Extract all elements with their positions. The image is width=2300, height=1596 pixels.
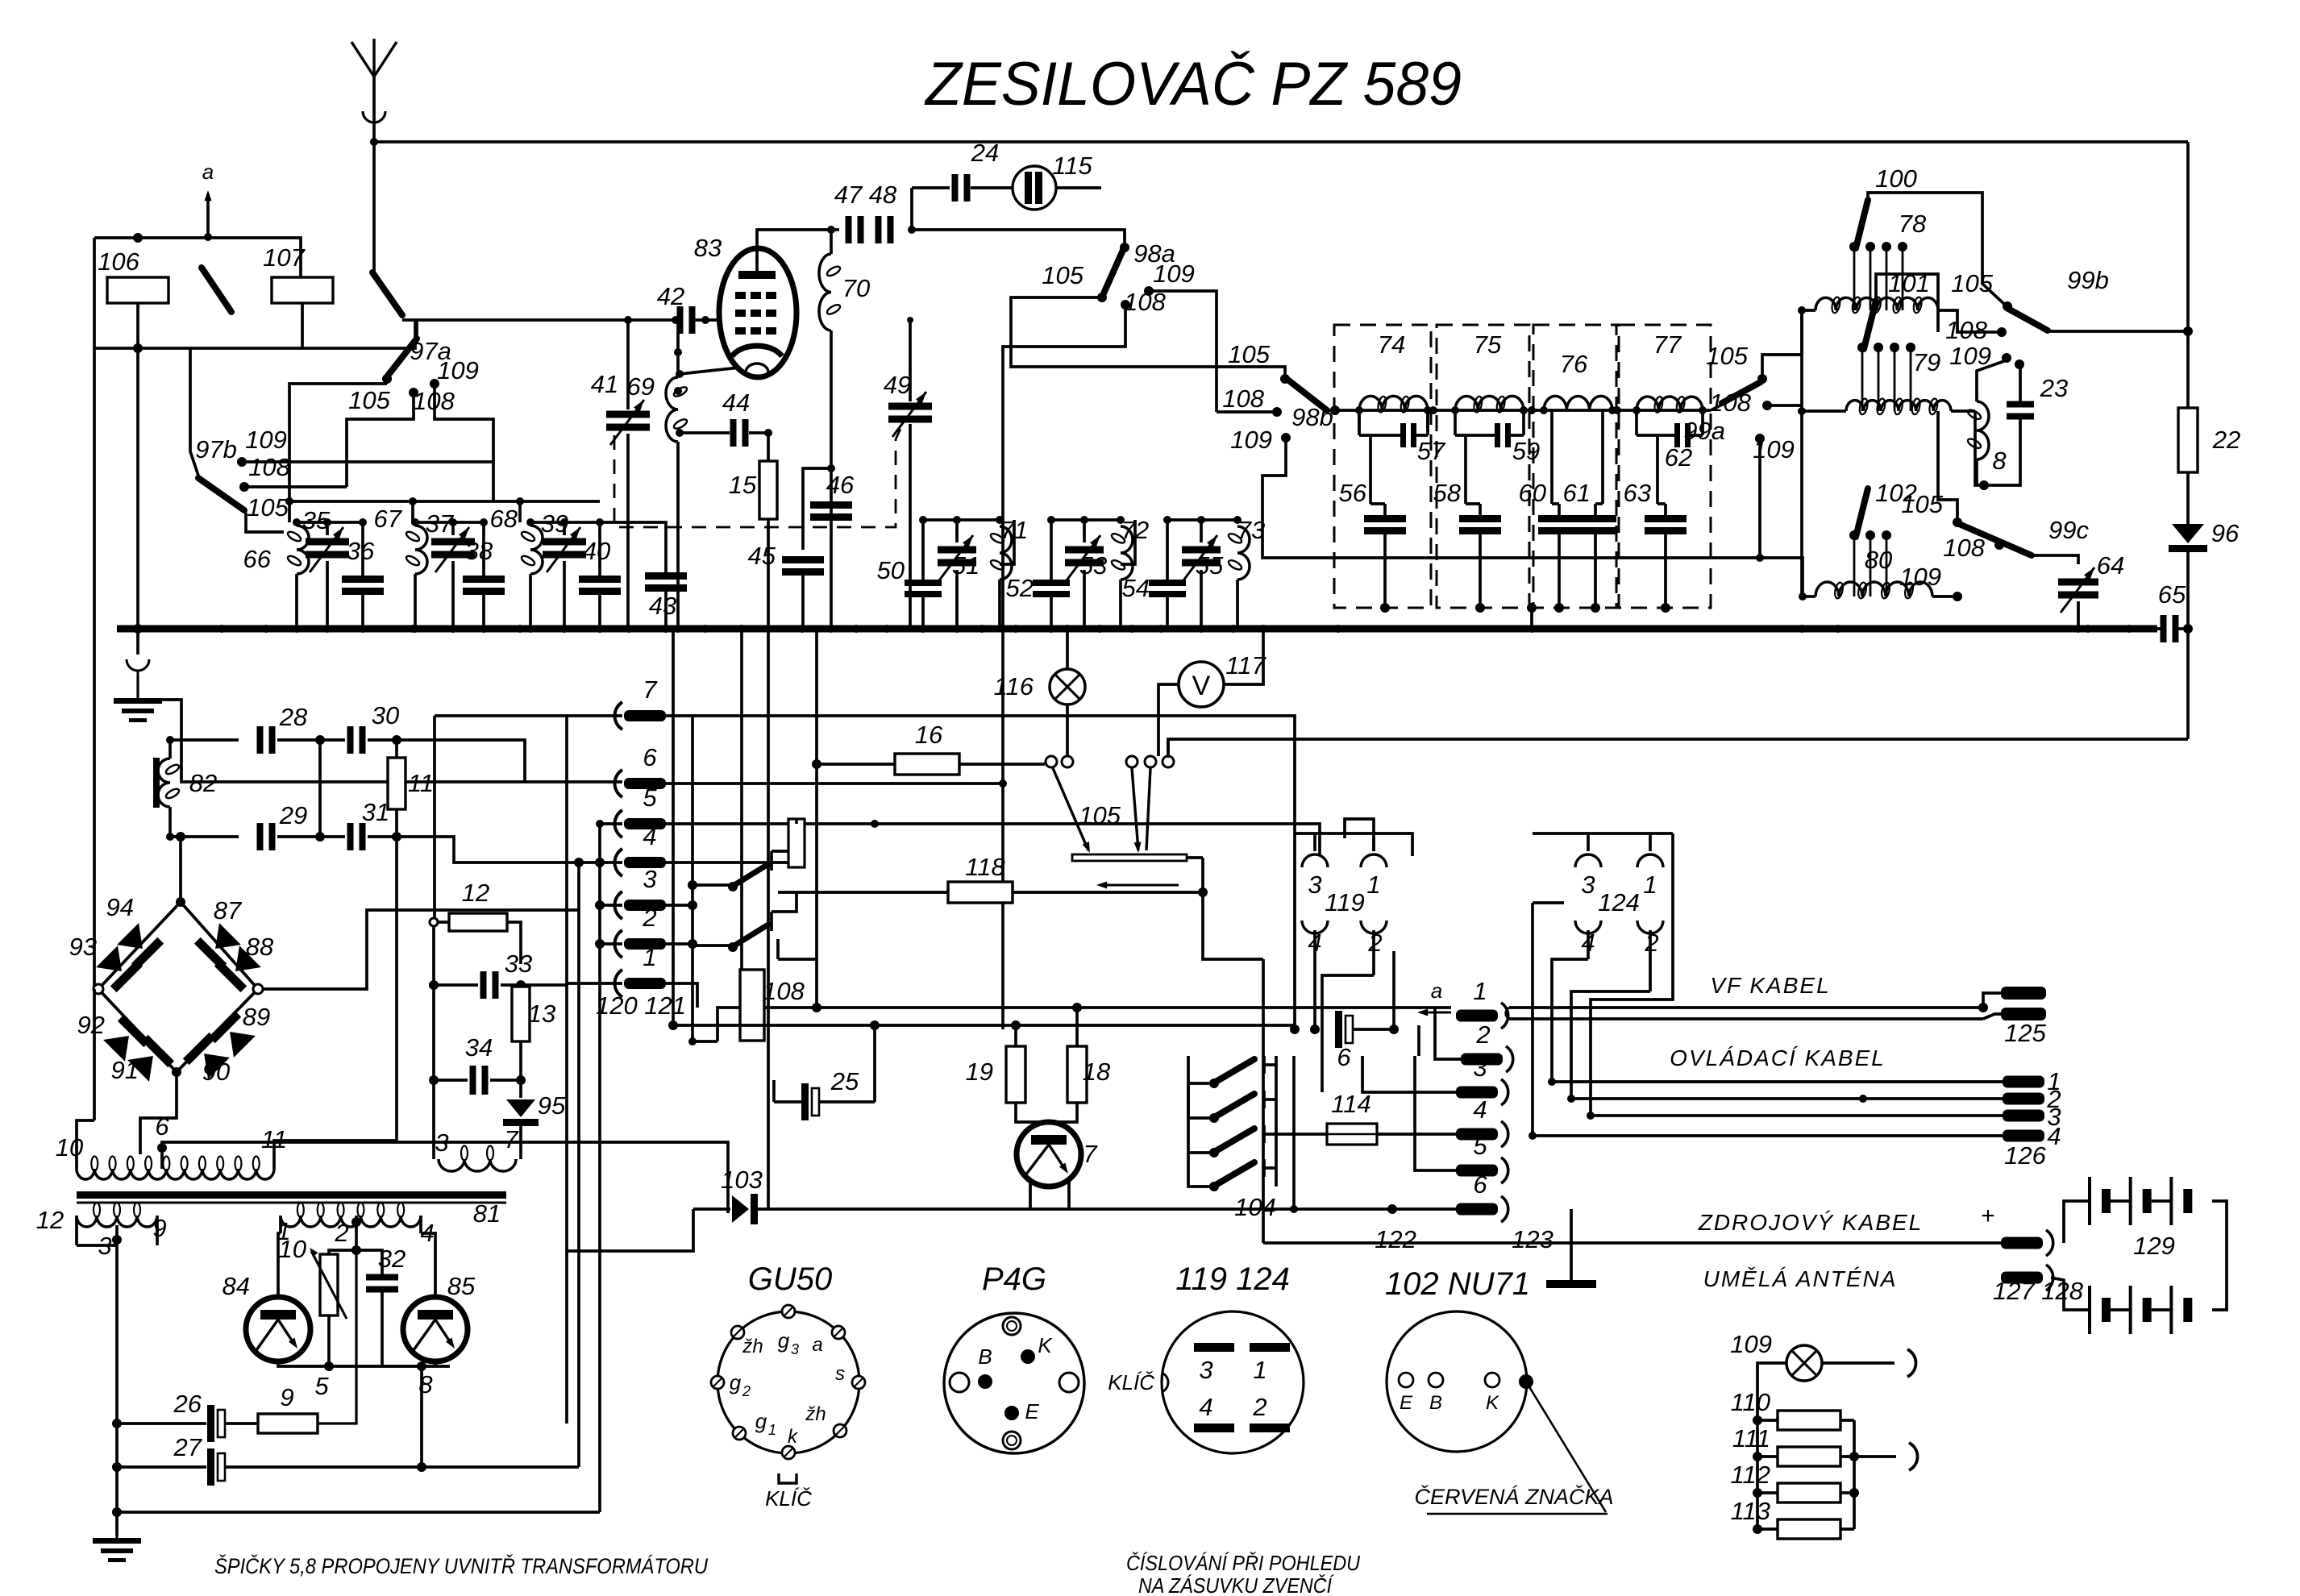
node 98a 105	[1097, 293, 1107, 302]
resistor 18	[1067, 1046, 1087, 1103]
wire 78 left	[1802, 310, 1815, 355]
svg-text:23: 23	[2040, 374, 2068, 402]
svg-text:26: 26	[173, 1390, 202, 1418]
wire vertical 835	[672, 629, 675, 1025]
svg-text:34: 34	[465, 1033, 493, 1062]
svg-text:12: 12	[462, 879, 489, 907]
wire cap6 right	[1353, 1028, 1394, 1031]
diode 90	[183, 1033, 232, 1082]
antenna	[372, 77, 376, 274]
node VF right	[1978, 1003, 1988, 1012]
svg-text:5: 5	[314, 1372, 329, 1400]
wire 1500 long	[758, 1207, 1456, 1211]
switch 99a blade	[1722, 382, 1761, 403]
svg-text:6: 6	[1473, 1170, 1487, 1199]
wire 26 right	[226, 1422, 258, 1425]
svg-text:61: 61	[1563, 479, 1591, 507]
svg-text:2: 2	[742, 1383, 751, 1399]
svg-text:99a: 99a	[1683, 417, 1725, 445]
wire 99c common up	[1938, 411, 1957, 522]
wire 171 to bus	[136, 348, 139, 629]
tuned circuit cap 54 cap 55 coil 73	[1167, 518, 1237, 522]
meter 7	[1016, 1103, 1043, 1122]
node rail 512	[409, 497, 417, 505]
svg-text:108: 108	[1709, 389, 1751, 417]
wire 115 out	[1056, 186, 1101, 189]
dashed 49 link	[896, 427, 901, 439]
inductor 75	[1455, 396, 1524, 410]
wire 49 top	[909, 320, 912, 401]
svg-text:77: 77	[1653, 330, 1682, 359]
wire 109 rail mid	[1149, 291, 1217, 412]
svg-text:35: 35	[302, 506, 331, 534]
wire lamp109 left	[1757, 1363, 1786, 1420]
tuned circuit coil 67 cap 37 cap 38	[415, 521, 484, 524]
connector pin 6	[615, 770, 622, 797]
wire 22 to 96	[2186, 472, 2190, 524]
resistor 15	[759, 461, 777, 519]
svg-text:ČÍSLOVÁNÍ PŘI POHLEDU: ČÍSLOVÁNÍ PŘI POHLEDU	[1126, 1551, 1360, 1575]
node 2 junction	[351, 1245, 361, 1255]
wire 285 to 98a	[912, 230, 1125, 246]
svg-text:98b: 98b	[1291, 403, 1333, 431]
wire 32 top	[356, 1250, 382, 1274]
wire cathode	[680, 368, 739, 374]
svg-text:ZDROJOVÝ KABEL: ZDROJOVÝ KABEL	[1698, 1210, 1924, 1235]
svg-text:UMĚLÁ ANTÉNA: UMĚLÁ ANTÉNA	[1703, 1266, 1898, 1291]
svg-text:118: 118	[965, 853, 1005, 881]
svg-text:a: a	[1431, 979, 1442, 1003]
wire cap25 branch	[873, 1025, 876, 1102]
wire 97a common	[415, 320, 418, 339]
resistor 118	[948, 882, 1013, 903]
node 47-48 right	[908, 226, 916, 234]
wire 117 right	[1224, 631, 1263, 684]
svg-text:63: 63	[1624, 479, 1651, 507]
node 41 top	[624, 316, 632, 324]
node pin5 1085	[871, 820, 879, 828]
wire battery loop	[2064, 1201, 2090, 1243]
wire vertical 718	[577, 862, 580, 1467]
svg-text:19: 19	[966, 1058, 993, 1086]
capacitor 43	[645, 572, 687, 580]
node filters bus	[1527, 603, 1537, 613]
wire left AC down	[93, 348, 96, 989]
svg-text:24: 24	[971, 139, 999, 167]
node 1260-1272	[1011, 1020, 1021, 1030]
capacitor 31	[347, 823, 354, 850]
wire 124 tails	[1552, 959, 1588, 1082]
svg-text:8: 8	[1992, 447, 2007, 475]
node bridge right	[253, 984, 263, 994]
wire 16 left	[817, 763, 895, 766]
svg-text:B: B	[978, 1345, 992, 1369]
capacitor 59	[1454, 410, 1457, 435]
diode 92	[101, 1015, 150, 1064]
switch relay arm 1	[734, 864, 768, 885]
plug lamp109	[1907, 1349, 1916, 1377]
wire sec left terms	[75, 1216, 78, 1245]
capacitor 45	[782, 556, 824, 563]
wire primary right	[274, 1141, 397, 1143]
svg-text:50: 50	[877, 556, 905, 584]
svg-text:105: 105	[1042, 261, 1083, 289]
node 80 left	[1799, 592, 1807, 601]
wire pin6 left	[138, 700, 622, 782]
variable capacitor 49	[888, 403, 932, 410]
node antenna-top	[370, 138, 378, 146]
svg-text:112: 112	[1731, 1461, 1770, 1489]
wire 97b 109	[242, 462, 493, 501]
wire 8 down	[420, 1366, 423, 1467]
svg-text:31: 31	[362, 798, 389, 826]
wire vertical 859	[691, 716, 694, 1041]
wire 9 right	[318, 1250, 356, 1424]
svg-text:79: 79	[1913, 348, 1940, 376]
svg-text:13: 13	[528, 1000, 555, 1028]
node 99a 105	[1757, 374, 1767, 384]
socket P4G holes	[950, 1373, 969, 1392]
wire 104 rail	[1264, 1063, 1276, 1066]
svg-text:9: 9	[280, 1383, 293, 1411]
svg-text:12: 12	[36, 1206, 64, 1234]
wire grid return	[676, 320, 680, 377]
wire 104 left feeds	[1188, 1083, 1214, 1118]
inductor 77	[1637, 397, 1703, 410]
wire 44 right	[749, 431, 768, 434]
node relay 1013	[812, 1003, 821, 1012]
wire 78 right	[1938, 310, 2002, 332]
plug 2	[1461, 1054, 1503, 1066]
capacitor 25	[801, 1083, 809, 1120]
wire 27 left	[117, 1465, 206, 1469]
wire 1272 cont	[1016, 1024, 1295, 1027]
capacitor 48	[875, 216, 882, 243]
svg-text:g: g	[778, 1328, 790, 1353]
svg-text:a: a	[202, 160, 214, 184]
switch 104	[1209, 1079, 1219, 1088]
dashed box 74	[1334, 325, 1431, 608]
diode 87	[194, 921, 243, 970]
taps 79	[1861, 351, 1864, 411]
svg-text:109: 109	[1730, 1330, 1772, 1358]
node 16 left	[812, 759, 821, 769]
wire 25 right	[819, 1100, 875, 1103]
diode 95	[506, 1099, 535, 1117]
node 97a 109	[430, 379, 439, 389]
wire ground stub	[136, 629, 139, 655]
node pin4 718	[574, 858, 584, 867]
wire pin6 right	[666, 782, 1003, 785]
wire 107 drop	[301, 303, 304, 348]
svg-text:K: K	[1038, 1333, 1053, 1357]
connector pin bottom 6	[1456, 1203, 1498, 1216]
node 97b 109	[237, 457, 247, 467]
filter series junction dots	[1355, 406, 1363, 414]
node 12 left	[430, 918, 438, 926]
svg-text:85: 85	[447, 1272, 476, 1300]
switch 102 blade	[1856, 488, 1868, 537]
wire 15 bottom	[767, 519, 770, 629]
wire right vertical top	[2186, 142, 2190, 408]
wire 99a-108 right	[1767, 404, 1802, 407]
wire plug2 in	[1435, 1008, 1461, 1059]
plug 126-2	[2003, 1093, 2044, 1105]
switch 100 blade	[1856, 200, 1868, 248]
capacitor 46	[810, 501, 852, 509]
connector pin 4	[615, 849, 622, 876]
wire 95 top	[519, 1080, 522, 1098]
node 97a 105	[382, 374, 392, 384]
wire 1038 right	[397, 837, 579, 862]
svg-text:88: 88	[246, 933, 274, 961]
svg-text:29: 29	[279, 801, 307, 829]
wire 1492 vertical	[1203, 858, 1263, 959]
capacitor 33	[480, 971, 487, 999]
wire 72 tap	[1121, 520, 1135, 564]
svg-text:105: 105	[247, 493, 289, 522]
node 99a 108	[1762, 401, 1772, 410]
svg-text:6: 6	[1337, 1043, 1351, 1071]
svg-text:2: 2	[1475, 1020, 1490, 1049]
wire 34 left	[434, 1079, 468, 1082]
resistor 19	[1006, 1046, 1025, 1103]
wire ovladaci 4	[1533, 1134, 2003, 1137]
wire 24 to 115	[971, 186, 1013, 189]
transformer secondary 12-3-9	[77, 1216, 157, 1227]
wire 49 bottom	[909, 424, 912, 629]
node 145 nodes	[112, 1419, 122, 1428]
svg-text:7: 7	[504, 1125, 519, 1153]
svg-text:106: 106	[98, 247, 139, 276]
svg-text:6: 6	[155, 1112, 169, 1141]
svg-text:108: 108	[1945, 316, 1987, 344]
wire 111 plug	[1854, 1455, 1896, 1458]
resistor 110	[1778, 1411, 1840, 1430]
node 841-485	[674, 387, 682, 395]
svg-text:KLÍČ: KLÍČ	[765, 1486, 812, 1511]
svg-text:87: 87	[214, 896, 243, 925]
wire 1876 horizontal	[117, 1511, 600, 1514]
capacitor 32	[366, 1274, 398, 1281]
wire vertical 703	[565, 716, 568, 1424]
wire 45 branch	[803, 468, 831, 550]
wire 85 bottom	[434, 1361, 437, 1366]
svg-text:100: 100	[1875, 164, 1917, 193]
node bridge left	[94, 984, 103, 994]
svg-text:E: E	[1400, 1392, 1413, 1414]
capacitor 26	[207, 1405, 214, 1442]
svg-text:ŠPIČKY 5,8 PROPOJENY UVNITŘ TR: ŠPIČKY 5,8 PROPOJENY UVNITŘ TRANSFORMÁTO…	[214, 1553, 708, 1578]
svg-text:105: 105	[348, 386, 390, 414]
wire 11 bottom	[395, 809, 398, 837]
svg-text:99c: 99c	[2048, 516, 2089, 544]
node 106 bottom	[133, 343, 143, 353]
svg-text:53: 53	[1079, 551, 1107, 580]
contact 119-1	[1361, 854, 1387, 867]
capacitor 24	[952, 174, 959, 202]
svg-text:78: 78	[1899, 210, 1927, 238]
node tap 6	[157, 1143, 167, 1153]
tube 84	[246, 1297, 310, 1361]
wire 119-1 top	[1345, 819, 1374, 851]
svg-text:113: 113	[1731, 1497, 1770, 1525]
node 171 bus	[133, 624, 143, 634]
dashed box 77	[1619, 325, 1711, 608]
wire pin4	[579, 861, 622, 864]
svg-text:66: 66	[243, 545, 272, 573]
svg-text:10: 10	[279, 1235, 306, 1263]
node rail 645	[516, 497, 524, 505]
switch 99c blade	[1959, 524, 2032, 555]
wire 119-2 down	[1322, 975, 1374, 1092]
wire vertical 1013	[815, 629, 818, 1008]
svg-text:2: 2	[334, 1219, 348, 1247]
svg-text:96: 96	[2211, 519, 2240, 547]
wire 105 rail mid	[1011, 297, 1285, 376]
svg-text:105: 105	[1951, 269, 1993, 297]
svg-text:1: 1	[768, 1422, 776, 1438]
capacitor 27	[207, 1448, 214, 1486]
wire 8 top	[1977, 361, 2004, 401]
transformer secondary 1-2-4	[281, 1216, 421, 1227]
wire bridge top up	[179, 837, 182, 902]
node pin5 987	[792, 820, 800, 828]
svg-text:4: 4	[2047, 1122, 2061, 1150]
svg-text:108: 108	[248, 453, 290, 481]
wire 80 left	[1803, 595, 1815, 598]
socket 102-NU71 circle	[1387, 1311, 1527, 1452]
inductor 74	[1359, 396, 1428, 410]
svg-text:38: 38	[465, 537, 493, 565]
svg-text:116: 116	[994, 672, 1034, 700]
wire zdrojovy	[1263, 1241, 2001, 1245]
wire 97b 105 out	[246, 513, 284, 532]
svg-text:97a: 97a	[410, 337, 451, 365]
contact 124-1	[1637, 854, 1663, 867]
connector pin 1	[615, 970, 622, 997]
wire 70 top	[830, 230, 833, 254]
svg-text:37: 37	[426, 509, 455, 538]
node 42 left	[672, 316, 680, 324]
resistor 9	[258, 1414, 318, 1433]
svg-text:97b: 97b	[195, 435, 237, 463]
svg-text:115: 115	[1052, 152, 1092, 180]
svg-text:107: 107	[263, 243, 306, 272]
svg-text:3: 3	[791, 1341, 799, 1357]
wire 15 top	[767, 433, 770, 461]
svg-text:3: 3	[1199, 1356, 1212, 1384]
svg-text:74: 74	[1378, 330, 1405, 359]
svg-text:84: 84	[223, 1272, 250, 1300]
wire pin7	[435, 714, 622, 717]
svg-text:109: 109	[245, 426, 287, 454]
wire 16 right	[959, 763, 1045, 766]
svg-text:41: 41	[591, 370, 618, 398]
lamp 109 bottom	[1786, 1345, 1822, 1381]
wire 8 to 79	[1975, 411, 1984, 485]
svg-text:5: 5	[1473, 1132, 1487, 1160]
wire 30 right	[368, 738, 397, 742]
node 98b out	[1330, 405, 1340, 415]
wire relay right	[764, 1006, 1451, 1009]
wire 95 down	[519, 1126, 522, 1159]
wire 99a-109 down	[1758, 443, 1761, 558]
vacuum tube 83	[719, 248, 796, 377]
socket 119-124 slots	[1194, 1343, 1234, 1352]
svg-text:k: k	[788, 1426, 799, 1448]
resistor 22	[2178, 408, 2198, 472]
svg-text:36: 36	[347, 537, 375, 565]
wire 108a stub	[347, 397, 414, 487]
capacitor 30	[347, 726, 354, 754]
wire tubes bottom	[278, 1361, 450, 1366]
wire 28-30	[277, 738, 345, 742]
node 82 bottom	[166, 833, 174, 841]
svg-text:122: 122	[1375, 1225, 1416, 1253]
wire pin2	[600, 942, 622, 946]
svg-text:27: 27	[173, 1433, 203, 1461]
svg-text:+: +	[1981, 1203, 1995, 1229]
svg-text:2: 2	[642, 904, 656, 932]
svg-text:1: 1	[643, 943, 656, 971]
diode 89	[209, 1011, 258, 1060]
inductor 8	[1977, 401, 1989, 459]
wire rheostat top	[329, 1250, 356, 1254]
wire pin1	[567, 982, 622, 985]
svg-text:126: 126	[2004, 1141, 2046, 1170]
wire pin5 bottom	[1415, 1056, 1456, 1170]
wire 64 bottom	[2077, 601, 2080, 629]
wire 1272 right segment	[1003, 1024, 1016, 1027]
dashed box 75	[1437, 325, 1529, 608]
node 5	[324, 1361, 334, 1371]
transformer primary 10-6-11	[77, 1169, 274, 1179]
transformer core 81	[77, 1191, 506, 1199]
taps 80	[1853, 538, 1856, 596]
wire vertical 744	[598, 824, 601, 1512]
fuse 114	[1276, 1133, 1327, 1136]
wire 1729 up	[1392, 951, 1395, 1029]
svg-text:g: g	[730, 1370, 742, 1394]
svg-text:3: 3	[1581, 871, 1595, 899]
switch 97a blade	[388, 339, 417, 376]
wire 918 to pin6	[397, 740, 525, 782]
wire 42 to tube	[695, 318, 724, 322]
svg-text:82: 82	[189, 769, 217, 797]
node 79 left	[1798, 407, 1806, 415]
wire 19 top	[1014, 1025, 1017, 1046]
wire bridge bottom down	[140, 1072, 177, 1154]
node 99c 108	[1994, 540, 2004, 550]
wire 8 bot	[1975, 459, 1978, 485]
capacitor 60	[1550, 410, 1553, 504]
wire 82 bottom	[170, 807, 239, 837]
inductor 78	[1815, 297, 1938, 310]
switch 105 arrow	[1101, 884, 1179, 887]
node 8-1820	[417, 1462, 426, 1472]
svg-text:46: 46	[826, 471, 855, 499]
wire AC left down	[93, 989, 96, 1120]
tuned circuit coil 68 cap 39 cap 40	[530, 521, 600, 524]
wire pin3 bottom	[1362, 1056, 1456, 1092]
svg-text:76: 76	[1560, 350, 1588, 378]
node 98b 105	[1280, 374, 1290, 384]
svg-text:48: 48	[869, 181, 897, 209]
node 44 right	[764, 429, 772, 437]
node 99b 109	[2002, 353, 2011, 363]
socket P4G circle	[944, 1313, 1084, 1453]
